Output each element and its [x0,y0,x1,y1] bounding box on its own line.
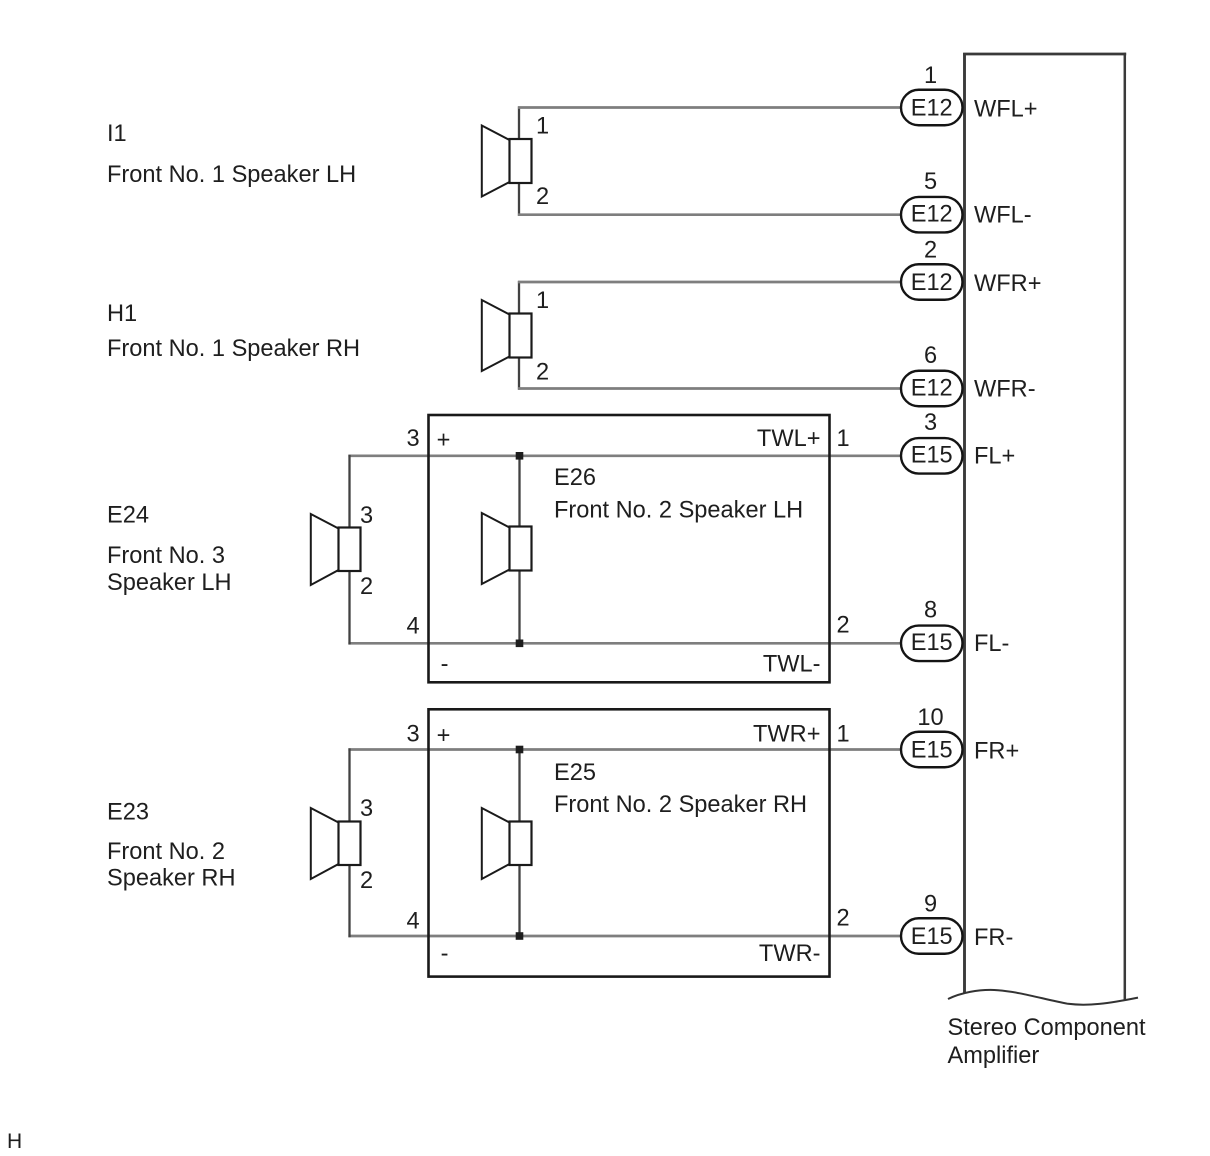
svg-text:1: 1 [536,114,549,140]
svg-text:FR-: FR- [974,925,1013,951]
wire E23 speaker pin2 down-stub [348,864,350,937]
svg-text:Front No. 2 Speaker LH: Front No. 2 Speaker LH [554,498,803,524]
svg-text:2: 2 [924,238,937,264]
svg-text:TWR+: TWR+ [753,722,821,748]
svg-text:FL+: FL+ [974,444,1015,470]
wire FR+ (TWR+) from E23/E25 to E15 pin10 [348,748,904,751]
svg-text:Speaker RH: Speaker RH [107,866,236,892]
svg-text:Front No. 1 Speaker LH: Front No. 1 Speaker LH [107,162,356,188]
wire E24 speaker pin2 down-stub [348,570,350,645]
connector E15 pin 9 [901,918,963,954]
svg-text:1: 1 [837,722,850,748]
svg-text:FR+: FR+ [974,739,1019,765]
svg-text:WFL-: WFL- [974,203,1032,229]
junction dot TWR- [516,932,524,940]
svg-text:5: 5 [924,169,937,195]
svg-text:Front No. 2 Speaker RH: Front No. 2 Speaker RH [554,792,807,818]
svg-text:E23: E23 [107,800,149,826]
svg-text:2: 2 [360,868,373,894]
svg-text:WFR+: WFR+ [974,271,1042,297]
svg-text:H: H [7,1130,22,1153]
wire FL- (TWL-) from E24/E26 to E15 pin8 [348,642,904,645]
junction dot TWL- [516,640,524,648]
svg-text:3: 3 [360,796,373,822]
svg-text:E15: E15 [911,924,953,950]
svg-text:Stereo Component: Stereo Component [948,1015,1146,1041]
connector E15 pin 8 [901,626,963,662]
svg-text:TWL-: TWL- [763,652,821,678]
wire WFR+ from speaker H1 pin1 to E12 pin2 [518,281,904,315]
svg-text:2: 2 [536,360,549,386]
svg-text:2: 2 [536,184,549,210]
speaker E26 (inner) [482,513,532,584]
svg-text:E26: E26 [554,465,596,491]
svg-text:TWR-: TWR- [759,941,821,967]
svg-text:E25: E25 [554,760,596,786]
speaker E25 (inner) [482,808,532,879]
speaker I1 [482,126,532,197]
svg-text:1: 1 [536,288,549,314]
wire FR- (TWR-) from E23/E25 to E15 pin9 [348,935,904,938]
svg-text:Speaker LH: Speaker LH [107,570,232,596]
svg-text:Amplifier: Amplifier [948,1043,1040,1069]
wire WFL+ from speaker I1 pin1 to E12 pin1 [518,106,904,140]
svg-text:3: 3 [406,722,419,748]
svg-text:2: 2 [360,574,373,600]
svg-text:3: 3 [924,410,937,436]
svg-text:Front No. 2: Front No. 2 [107,839,225,865]
svg-text:FL-: FL- [974,631,1009,657]
svg-text:Front No. 1 Speaker RH: Front No. 1 Speaker RH [107,336,360,362]
wire E23 speaker pin3 up-stub [348,748,350,822]
connector E12 pin 5 [901,197,963,233]
wire FL+ (TWL+) from E24/E26 to E15 pin3 [348,454,904,457]
svg-text:H1: H1 [107,301,137,327]
connector E15 pin 10 [901,732,963,768]
svg-text:10: 10 [917,705,943,731]
svg-text:TWL+: TWL+ [757,426,821,452]
amplifier left edge [963,53,966,993]
svg-text:6: 6 [924,343,937,369]
svg-text:+: + [437,723,451,749]
svg-text:WFR-: WFR- [974,377,1036,403]
svg-text:2: 2 [837,613,850,639]
wire E24 speaker pin3 up-stub [348,455,350,529]
wire E26 inner speaker down-stub [518,570,520,645]
wire E25 inner speaker down-stub [518,864,520,937]
wire WFL- from speaker I1 pin2 to E12 pin5 [518,182,904,216]
speaker H1 [482,300,532,371]
connector E12 pin 2 [901,264,963,300]
svg-text:3: 3 [406,426,419,452]
speaker E24 [311,514,361,585]
amplifier break wave [948,990,1138,1005]
svg-text:8: 8 [924,598,937,624]
connector E12 pin 1 [901,90,963,126]
connector E15 pin 3 [901,438,963,474]
amplifier right edge [1124,53,1127,1001]
junction dot TWR+ [516,746,524,754]
svg-text:-: - [441,652,449,678]
svg-text:3: 3 [360,503,373,529]
junction box E26 [429,415,830,682]
svg-text:E12: E12 [911,96,953,122]
wire E26 inner speaker up-stub [518,455,520,528]
svg-text:1: 1 [837,426,850,452]
connector E12 pin 6 [901,371,963,407]
svg-text:9: 9 [924,892,937,918]
wire WFR- from speaker H1 pin2 to E12 pin6 [518,357,904,390]
svg-text:-: - [441,941,449,967]
junction box E25 [429,709,830,976]
svg-text:E15: E15 [911,443,953,469]
speaker E23 [311,808,361,879]
svg-text:E15: E15 [911,738,953,764]
svg-text:+: + [437,428,451,454]
svg-text:I1: I1 [107,121,127,147]
svg-text:1: 1 [924,63,937,89]
svg-text:E12: E12 [911,270,953,296]
svg-text:2: 2 [837,906,850,932]
svg-text:E24: E24 [107,503,149,529]
wire E25 inner speaker up-stub [518,748,520,822]
amplifier top edge [963,53,1126,56]
svg-text:E12: E12 [911,202,953,228]
svg-text:Front No. 3: Front No. 3 [107,543,225,569]
svg-text:E15: E15 [911,630,953,656]
svg-text:E12: E12 [911,376,953,402]
svg-text:4: 4 [406,909,419,935]
svg-text:4: 4 [406,614,419,640]
junction dot TWL+ [516,452,524,460]
svg-text:WFL+: WFL+ [974,97,1038,123]
